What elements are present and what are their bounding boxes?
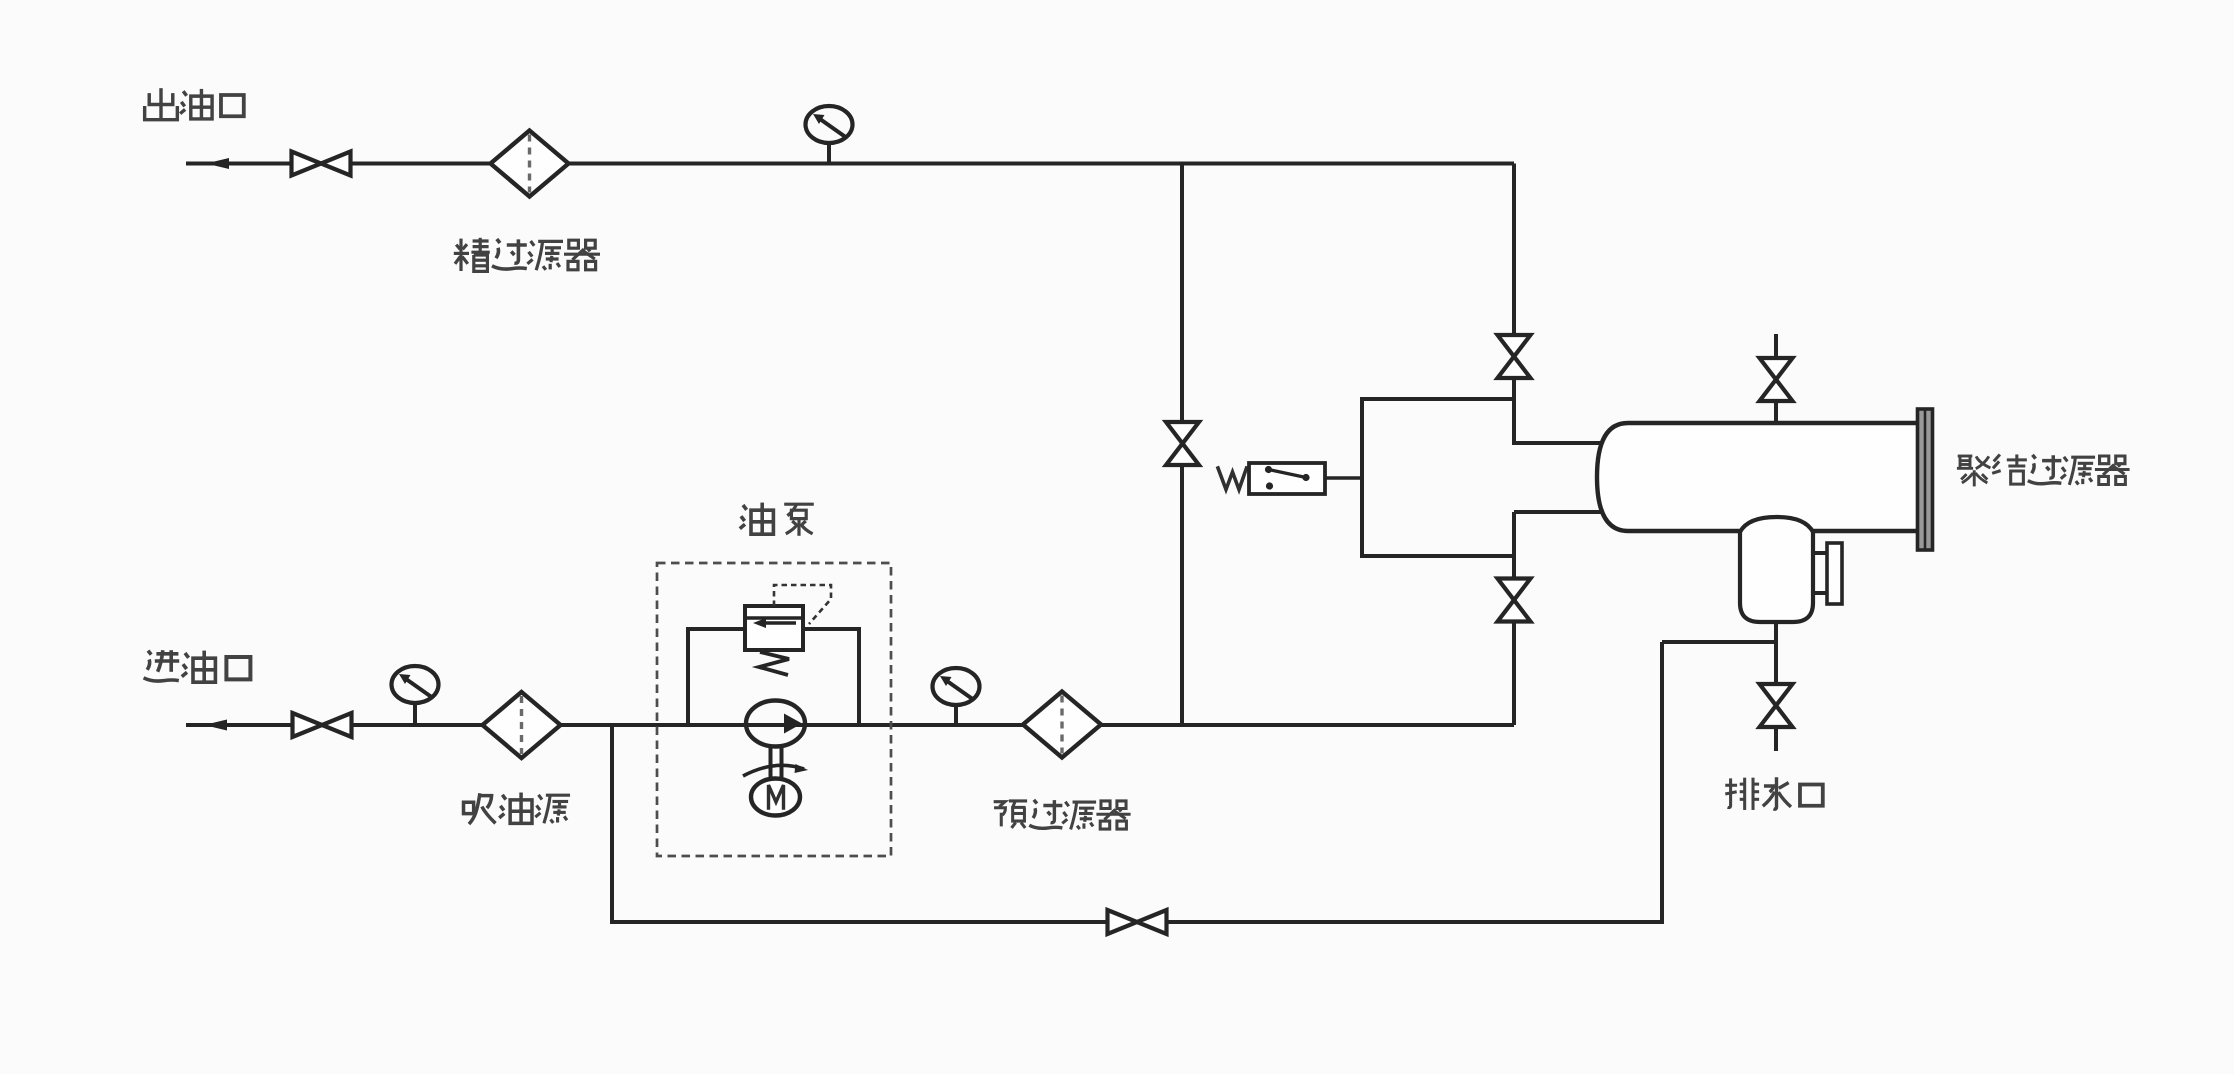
wire: bypass drop at x=612	[610, 725, 614, 924]
relief loop right	[803, 629, 859, 725]
gauge G2 stem	[413, 703, 417, 725]
label 精过滤器 (fine filter)	[454, 238, 600, 272]
label 聚结过滤器 (coalescing filter)	[1957, 454, 2130, 486]
wire: bottom pipe manifold to coalescer	[1514, 510, 1618, 514]
filter F3 pre-filter	[1023, 692, 1101, 758]
wire: switch to manifold	[1325, 476, 1362, 480]
wire: left riser x=1182	[1180, 164, 1184, 726]
relief loop left	[688, 629, 745, 725]
pump unit dashed enclosure	[657, 563, 891, 856]
wire: top pipe manifold to coalescer	[1514, 441, 1615, 445]
coalescing filter vessel	[1597, 423, 1920, 531]
pump shaft	[769, 746, 773, 781]
valve V2 (inlet shut-off)	[293, 713, 352, 737]
drain riser to bypass	[1660, 642, 1664, 924]
valve V4 (bypass)	[1108, 910, 1167, 934]
filter F2 suction filter	[483, 692, 561, 758]
water sump vessel	[1740, 517, 1813, 622]
valve V6 (manifold top inlet)	[1498, 335, 1531, 378]
vent stem above coalescer	[1774, 334, 1778, 358]
wire: valve V7 to inlet main line	[1512, 621, 1516, 725]
label 油泵 (oil pump)	[740, 503, 814, 536]
motor circle	[751, 779, 800, 816]
label 排水口 (water drain)	[1725, 777, 1823, 810]
sump side flange	[1827, 543, 1842, 604]
wire: outlet main line	[186, 162, 1514, 166]
valve V8 (vent)	[1760, 358, 1793, 401]
valve V5 on left riser	[1166, 422, 1199, 465]
valve V7 (manifold bottom)	[1498, 579, 1531, 622]
relief valve arrow	[760, 621, 796, 624]
gauge G3	[933, 668, 980, 705]
valve V9 (water drain)	[1760, 684, 1793, 727]
gauge G3 stem	[954, 704, 958, 725]
relief pilot dashed line	[774, 585, 831, 624]
valve V1 (outlet shut-off)	[292, 152, 351, 176]
label 预过滤器 (pre-filter)	[994, 800, 1131, 830]
manifold block	[1362, 399, 1514, 556]
drain outlet stub	[1774, 727, 1778, 751]
label 吸油滤 (suction filter)	[464, 793, 571, 825]
wire: inlet main line	[186, 723, 1514, 727]
wire: right drop x=1514 top	[1512, 164, 1516, 337]
filter F1 fine filter	[491, 131, 569, 197]
drain stem from sump	[1774, 622, 1778, 684]
relief valve spring	[759, 652, 789, 675]
wire: valve V6 to manifold	[1512, 378, 1516, 445]
drain branch tee	[1662, 640, 1776, 644]
wire: vent valve to vessel	[1774, 401, 1778, 425]
level switch letter W	[1218, 468, 1247, 490]
pump circle	[746, 701, 805, 747]
flow arrow (inlet, points left)	[204, 720, 227, 731]
flow arrow (outlet, points left)	[206, 158, 229, 169]
relief valve body	[745, 606, 803, 650]
coalescer end flange	[1918, 409, 1933, 550]
level switch box	[1249, 463, 1325, 494]
motor letter M	[769, 785, 784, 808]
label 进油口 (oil inlet)	[144, 650, 251, 682]
wire: bypass bottom line	[610, 920, 1662, 924]
pump flow triangle	[784, 714, 802, 734]
gauge G1	[806, 106, 853, 143]
sump side nozzle	[1813, 551, 1828, 555]
gauge G2	[392, 666, 439, 703]
wire: manifold bottom drop	[1512, 556, 1516, 580]
gauge G1 stem	[827, 142, 831, 164]
rotation arc	[743, 765, 804, 776]
label 出油口 (oil outlet)	[145, 88, 244, 120]
